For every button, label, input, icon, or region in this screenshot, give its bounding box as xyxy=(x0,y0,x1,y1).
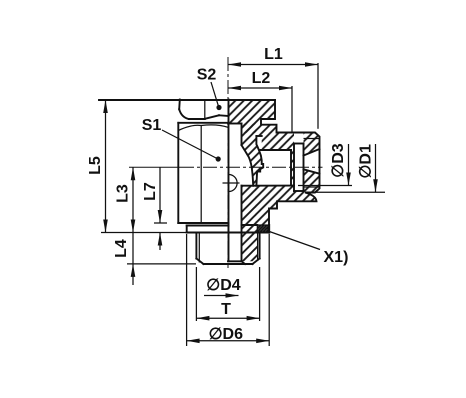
svg-text:T: T xyxy=(221,301,231,318)
svg-text:∅D3: ∅D3 xyxy=(330,143,347,177)
svg-text:∅D6: ∅D6 xyxy=(209,326,243,343)
svg-text:X1): X1) xyxy=(324,249,349,266)
svg-text:L3: L3 xyxy=(115,184,132,203)
svg-text:L4: L4 xyxy=(113,239,130,258)
svg-text:L1: L1 xyxy=(264,46,283,63)
svg-text:∅D1: ∅D1 xyxy=(358,144,375,178)
svg-text:L2: L2 xyxy=(252,70,271,87)
svg-text:L7: L7 xyxy=(142,182,159,201)
svg-text:∅D4: ∅D4 xyxy=(206,277,240,294)
svg-text:S1: S1 xyxy=(142,117,162,134)
svg-text:L5: L5 xyxy=(87,156,104,175)
svg-text:S2: S2 xyxy=(197,67,217,84)
